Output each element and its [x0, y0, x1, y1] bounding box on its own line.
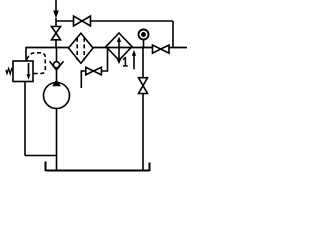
- drain valve V5 (small bowtie under aftercooler): [86, 67, 102, 75]
- outlet arrow for label 1: [132, 50, 136, 70]
- wire: relief valve outlet down: [24, 82, 26, 156]
- check valve (ball in seat): [50, 48, 64, 81]
- wire: right drain line down from main line: [142, 48, 144, 78]
- pressure gauge: [139, 30, 149, 48]
- wire: supply line from V2 down to main line: [55, 40, 57, 48]
- compressor (circle with solid triangle outlet): [44, 79, 70, 109]
- relief valve spring: [6, 69, 13, 74]
- bottom rail with end ticks: [46, 162, 150, 172]
- relief valve body: [13, 61, 33, 82]
- shut-off valve V2 (vertical hourglass on supply line): [52, 27, 61, 40]
- wire: left corner down to relief valve inlet: [25, 47, 27, 62]
- air supply inlet arrow: [53, 0, 59, 19]
- wire: drain horizontal to pump line: [25, 155, 57, 157]
- shut-off valve V4 (right bowtie on main line): [153, 45, 170, 53]
- label 1: [123, 57, 128, 66]
- filter (diamond with dashed elements): [69, 33, 94, 63]
- aftercooler diamond with double arrow: [106, 33, 132, 64]
- wire: drain valve right stub up to main line: [101, 48, 107, 72]
- shut-off valve V1 (top bowtie): [74, 16, 91, 26]
- wire: top horizontal line from inlet to right corner: [56, 18, 173, 27]
- wire: main horizontal line: [26, 47, 187, 49]
- wire: drain valve left stub to open vent: [81, 71, 86, 88]
- wire: compressor bottom line down to bottom rail: [56, 109, 58, 171]
- relief valve flow arrow: [27, 63, 31, 80]
- pilot line (dashed): [27, 53, 45, 74]
- shut-off valve V3 (vertical hourglass on right drain): [139, 78, 148, 94]
- wire: right vertical drop from top line to main line: [172, 21, 174, 48]
- wire: right drain continues to bottom rail: [142, 94, 144, 171]
